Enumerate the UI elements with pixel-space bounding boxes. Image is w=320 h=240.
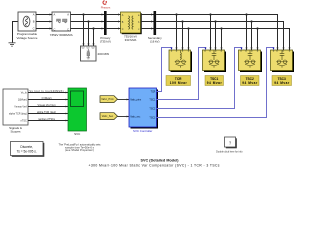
svg-text:Vs (pu) Is (pu/100MVA): Vs (pu) Is (pu/100MVA) xyxy=(30,90,64,93)
bus B2 Secondary 16 kV xyxy=(148,11,162,43)
wire control TCR pulses xyxy=(157,48,173,92)
svg-text:alpha TCR (deg): alpha TCR (deg) xyxy=(9,113,27,116)
wire neutral to ground xyxy=(13,22,19,43)
wire signal Vmeas Vref to scope xyxy=(28,104,68,108)
wire TSC1 tap phase c xyxy=(221,29,223,51)
svg-text:nTSC: nTSC xyxy=(21,120,27,123)
svg-text:Vabc_Sec: Vabc_Sec xyxy=(102,115,114,118)
svg-text:TSC1: TSC1 xyxy=(149,99,156,101)
wire load tap phase A xyxy=(83,15,85,47)
svg-text:SVC: SVC xyxy=(74,132,81,136)
svg-text:SVC Controller: SVC Controller xyxy=(133,129,152,133)
wire phase A source to impedance xyxy=(36,14,52,16)
from tag Vabc_Sec xyxy=(100,113,118,120)
scope SVC xyxy=(68,88,87,136)
wire load tap phase B xyxy=(88,22,90,47)
wire phase a distribution with corner to TSC3 xyxy=(156,15,278,51)
wire phase C impedance to bus B1 xyxy=(71,28,105,30)
junction node TSC2 phase c xyxy=(256,27,258,29)
junction node TCR phase b xyxy=(181,20,183,22)
svg-text:alpha TCR (deg): alpha TCR (deg) xyxy=(37,111,56,114)
label TSC3 94 Mvar xyxy=(272,76,292,86)
svg-text:TCR: TCR xyxy=(151,91,156,93)
source U1 Programmable Voltage Source xyxy=(17,12,38,40)
wire phase c distribution with corner to TSC3 xyxy=(156,29,290,51)
wire TSC2 tap phase a xyxy=(246,15,248,51)
svg-text:(16 kV): (16 kV) xyxy=(150,39,159,43)
svg-text:Discrete,: Discrete, xyxy=(20,145,33,149)
junction node TCR phase c xyxy=(187,27,189,29)
svg-text:94 Mvar: 94 Mvar xyxy=(207,81,223,85)
bus B1 Primary 735 kV xyxy=(100,11,111,43)
wire phase a transformer to bus B2 xyxy=(142,14,154,16)
wire TSC2 tap phase c xyxy=(257,29,259,51)
controller U2 SVC Controller xyxy=(129,88,158,133)
wire phase A impedance to bus B1 xyxy=(71,14,105,16)
annotation phasors icon xyxy=(103,1,107,5)
svg-text:(see 'Model Properties'): (see 'Model Properties') xyxy=(65,148,94,152)
wire phase c transformer to bus B2 xyxy=(142,28,154,30)
wire phase C bus B1 to transformer xyxy=(107,28,121,30)
junction node TSC1 phase a xyxy=(209,13,211,15)
junction node load phase A xyxy=(82,13,84,15)
svg-text:Vmeas Vref: Vmeas Vref xyxy=(14,106,27,109)
load LD1 200 MW xyxy=(81,46,110,61)
svg-text:Double click here for info: Double click here for info xyxy=(216,150,243,153)
wire signal Q to scope xyxy=(28,97,68,101)
svg-text:B: B xyxy=(33,20,35,24)
junction node TSC1 phase c xyxy=(220,27,222,29)
svg-text:94 Mvar: 94 Mvar xyxy=(242,81,258,85)
ground xyxy=(9,43,16,46)
annotation double click here for info xyxy=(216,150,243,153)
svg-text:+300 Mvar/-100 Mvar Static Var: +300 Mvar/-100 Mvar Static Var Compensat… xyxy=(89,164,220,168)
wire phase C source to impedance xyxy=(36,28,52,30)
wire control TSC3 pulses xyxy=(157,48,275,118)
svg-text:A: A xyxy=(67,13,69,17)
svg-text:Voltage Source: Voltage Source xyxy=(17,36,38,40)
wire Vabc_Prim to controller xyxy=(118,99,130,101)
wire signal number of TSCs to scope xyxy=(28,118,68,122)
impedance Z1 735kV 6000 MVA xyxy=(50,12,74,37)
svg-text:C: C xyxy=(54,27,56,31)
info block question mark xyxy=(225,137,237,148)
svg-text:Scopes: Scopes xyxy=(10,130,21,134)
wire phase b distribution with corner to TSC3 xyxy=(156,22,284,51)
svg-text:Vmeas Vref (pu): Vmeas Vref (pu) xyxy=(38,104,56,107)
wire phase B impedance to bus B1 xyxy=(71,21,105,23)
wire Vabc_Sec to controller xyxy=(118,116,130,118)
branch TSC3 block xyxy=(271,50,295,72)
svg-text:TSC2: TSC2 xyxy=(149,108,156,110)
annotation title SVC Detailed Model xyxy=(141,159,180,163)
svg-text:(735 kV): (735 kV) xyxy=(100,39,111,43)
wire signal alpha TCR to scope xyxy=(28,111,68,115)
svg-text:333 MVA: 333 MVA xyxy=(125,38,137,42)
wire TSC1 tap phase b xyxy=(215,22,217,51)
label TCR 109 Mvar xyxy=(166,76,191,86)
powergui Discrete xyxy=(11,142,45,157)
annotation PreLoadFcn note xyxy=(59,143,102,153)
wire phase B source to impedance xyxy=(36,21,52,23)
annotation phasors text xyxy=(101,5,111,9)
svg-text:Q(Mvar): Q(Mvar) xyxy=(18,99,27,102)
block Signals and Scopes xyxy=(3,89,28,134)
svg-text:Ts = 5e-005 s.: Ts = 5e-005 s. xyxy=(17,150,37,154)
svg-text:A: A xyxy=(33,13,35,17)
label TSC1 94 Mvar xyxy=(205,76,224,86)
junction node load phase C xyxy=(92,27,94,29)
svg-text:Vabc_sec: Vabc_sec xyxy=(130,116,141,118)
svg-text:A: A xyxy=(54,13,56,17)
svg-text:735kV 6000MVA: 735kV 6000MVA xyxy=(50,33,74,37)
svg-text:109 Mvar: 109 Mvar xyxy=(170,81,188,85)
label TSC2 94 Mvar xyxy=(241,76,260,86)
svg-text:200 MW: 200 MW xyxy=(98,52,110,56)
annotation subtitle xyxy=(89,164,220,168)
wire signal Vs Is to scope xyxy=(28,90,68,94)
wire load tap phase C xyxy=(93,29,95,47)
from tag Vabc_Prim xyxy=(100,96,118,103)
wire TSC1 tap phase a xyxy=(210,15,212,51)
svg-text:SVC (Detailed Model): SVC (Detailed Model) xyxy=(141,159,180,163)
wire control TSC1 pulses xyxy=(157,48,207,100)
wire TSC2 tap phase b xyxy=(251,22,253,51)
junction node TSC2 phase b xyxy=(250,20,252,22)
svg-text:Phasors: Phasors xyxy=(101,5,111,9)
svg-text:Q (Mvar): Q (Mvar) xyxy=(42,97,52,100)
svg-text:Vabc_prim: Vabc_prim xyxy=(130,98,141,101)
svg-text:number of TSCs: number of TSCs xyxy=(38,118,56,121)
junction node load phase B xyxy=(87,20,89,22)
branch TSC1 block xyxy=(203,50,227,72)
wire phase B bus B1 to transformer xyxy=(107,21,121,23)
wire TCR tap phase c xyxy=(188,29,190,51)
svg-text:C: C xyxy=(67,27,69,31)
wire TCR tap phase b xyxy=(182,22,184,51)
wire phase A bus B1 to transformer xyxy=(107,14,121,16)
svg-text:TSC3: TSC3 xyxy=(149,117,156,119)
wire TCR tap phase a xyxy=(176,15,178,51)
transformer T1 735/16 kV 333 MVA xyxy=(121,12,142,42)
svg-text:Vabc_Prim: Vabc_Prim xyxy=(101,98,114,101)
svg-text:C: C xyxy=(122,28,124,31)
wire phase b transformer to bus B2 xyxy=(142,21,154,23)
junction node TCR phase a xyxy=(175,13,177,15)
branch TSC2 block xyxy=(239,50,263,72)
junction node TSC1 phase b xyxy=(214,20,216,22)
junction node TSC2 phase a xyxy=(245,13,247,15)
branch TCR block xyxy=(169,50,192,72)
wire control TSC2 pulses xyxy=(157,48,243,109)
svg-text:Vs_Is: Vs_Is xyxy=(21,92,28,95)
svg-text:94 Mvar: 94 Mvar xyxy=(274,81,290,85)
svg-text:C: C xyxy=(33,27,35,31)
